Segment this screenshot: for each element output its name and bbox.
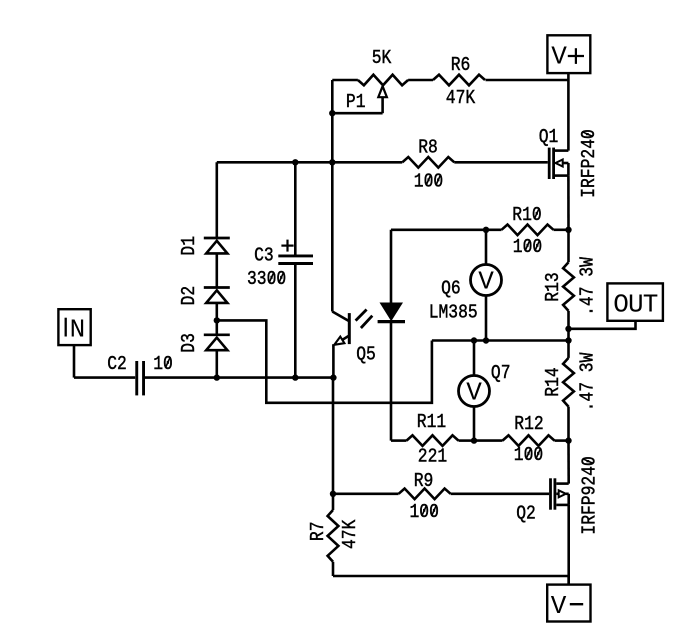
- potentiometer P1: [332, 48, 408, 113]
- svg-text:IRFP240: IRFP240: [579, 129, 600, 198]
- wire left vertical: [331, 113, 334, 311]
- svg-text:5K: 5K: [372, 48, 392, 69]
- node P1 junction: [329, 110, 335, 116]
- svg-text:N: N: [70, 315, 86, 345]
- node left rail: [329, 159, 335, 165]
- svg-text:R13: R13: [543, 272, 564, 301]
- node R10-R13: [565, 227, 571, 233]
- wire V+ stub: [567, 73, 570, 151]
- svg-text:D3: D3: [179, 333, 200, 353]
- wire bottom rail: [333, 575, 569, 578]
- wire Q5-R7: [332, 378, 335, 510]
- node OUT tap: [565, 326, 571, 332]
- node input-Q5: [330, 374, 336, 380]
- svg-text:R6: R6: [451, 55, 471, 76]
- svg-text:OUT: OUT: [613, 290, 658, 320]
- light arrows: [356, 310, 373, 329]
- node C3 top: [292, 159, 298, 165]
- transistor Q5: [332, 312, 375, 378]
- wire R7 bottom: [332, 562, 335, 576]
- wire input rail: [74, 376, 333, 379]
- transistor Q1: [539, 127, 601, 198]
- svg-text:100: 100: [513, 237, 542, 258]
- svg-text:IRFP9240: IRFP9240: [579, 456, 600, 534]
- node rail 340: [565, 337, 571, 343]
- svg-text:100: 100: [514, 445, 543, 466]
- wire R13-R14 gap: [567, 311, 570, 358]
- resistor R8: [402, 137, 454, 193]
- LED D4: [378, 230, 407, 441]
- wire D1-D2: [216, 254, 219, 287]
- capacitor C2: [107, 354, 173, 396]
- node D2-D3 tap: [214, 317, 220, 323]
- diode D1: [179, 236, 230, 256]
- svg-text:R11: R11: [417, 412, 446, 433]
- svg-text:Q5: Q5: [356, 344, 376, 365]
- resistor R7: [308, 510, 362, 562]
- voltage reference Q6: [429, 230, 502, 341]
- transistor Q2: [516, 456, 601, 534]
- wire R10 rail: [391, 229, 569, 232]
- wire R10-R13: [567, 230, 570, 262]
- node Q7 top: [471, 337, 477, 343]
- svg-text:R9: R9: [414, 471, 434, 492]
- svg-text:D2: D2: [179, 286, 200, 306]
- wire Q2 source: [567, 505, 570, 585]
- resistor R9: [399, 471, 451, 523]
- svg-text:47K: 47K: [340, 519, 361, 549]
- wire P1-R6 rail: [408, 79, 568, 82]
- power V+: [547, 35, 590, 73]
- svg-text:LM385: LM385: [429, 302, 478, 323]
- svg-text:R7: R7: [308, 522, 329, 542]
- resistor R11: [407, 412, 459, 468]
- node Q6 bottom: [483, 337, 489, 343]
- svg-text:D1: D1: [179, 236, 200, 256]
- port IN: [58, 309, 90, 345]
- svg-text:221: 221: [418, 446, 447, 467]
- wire D3 bottom: [216, 351, 219, 377]
- node input-diode: [214, 374, 220, 380]
- svg-text:V: V: [551, 591, 567, 621]
- svg-text:R12: R12: [514, 414, 543, 435]
- node R11-R12: [471, 437, 477, 443]
- node R9 left: [330, 491, 336, 497]
- svg-text:Q6: Q6: [441, 278, 461, 299]
- svg-text:R14: R14: [543, 367, 564, 396]
- voltage reference Q7: [459, 341, 511, 441]
- wire OUT: [569, 321, 636, 329]
- svg-text:.47 3W: .47 3W: [577, 352, 598, 411]
- svg-text:C3: C3: [254, 245, 274, 266]
- svg-text:Q7: Q7: [491, 363, 511, 384]
- svg-text:100: 100: [410, 502, 439, 523]
- resistor R6: [433, 55, 485, 109]
- wire R9 rail: [333, 492, 550, 495]
- wire R14-node: [567, 407, 570, 441]
- resistor R10: [502, 205, 554, 258]
- wire Q2 drain: [567, 441, 570, 484]
- wire Q1 source: [567, 176, 570, 230]
- resistor R13: [543, 257, 599, 316]
- svg-text:100: 100: [414, 171, 443, 192]
- capacitor C3: [247, 162, 313, 377]
- wire D2-D3: [216, 304, 219, 335]
- svg-text:V: V: [551, 42, 567, 72]
- wire R11-R12 rail: [459, 439, 569, 442]
- node input-C3: [292, 374, 298, 380]
- svg-text:47K: 47K: [446, 88, 476, 109]
- svg-text:R8: R8: [418, 137, 438, 158]
- svg-text:V: V: [478, 267, 494, 297]
- svg-text:.47 3W: .47 3W: [577, 257, 598, 316]
- wire IN stub: [73, 345, 76, 378]
- wire bias path: [217, 320, 432, 402]
- resistor R14: [543, 352, 599, 411]
- svg-text:Q2: Q2: [516, 503, 536, 524]
- svg-text:Q1: Q1: [539, 127, 559, 148]
- svg-text:R10: R10: [512, 205, 541, 226]
- node R12-R14: [565, 437, 571, 443]
- wire LM385 node: [432, 339, 569, 342]
- wire gate rail: [217, 161, 548, 164]
- svg-text:C2: C2: [107, 354, 127, 375]
- diode D2: [179, 286, 230, 306]
- wire diode chain top: [216, 162, 219, 238]
- resistor R12: [503, 414, 555, 466]
- diode D3: [179, 333, 230, 353]
- port OUT: [607, 283, 663, 320]
- svg-text:P1: P1: [346, 92, 366, 113]
- power V-: [547, 576, 590, 622]
- svg-text:V: V: [466, 378, 482, 408]
- node Q6 top: [483, 227, 489, 233]
